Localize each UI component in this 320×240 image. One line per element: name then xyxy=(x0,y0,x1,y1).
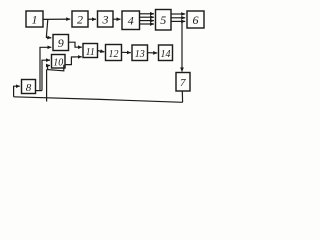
block 2 xyxy=(72,11,88,27)
svg-text:9: 9 xyxy=(58,36,64,50)
wire 12 to 13 xyxy=(122,51,131,53)
wire branch from node on 1-2 down to 9 upper input xyxy=(46,19,51,38)
svg-text:2: 2 xyxy=(77,13,83,27)
block 5 xyxy=(156,10,172,31)
wire 9 to 11 xyxy=(69,42,82,47)
wire feedback under 10 xyxy=(47,65,64,71)
block 8 xyxy=(22,80,36,94)
svg-text:10: 10 xyxy=(53,58,63,69)
bus line 4 to 5 line d xyxy=(140,23,154,25)
svg-text:3: 3 xyxy=(102,13,109,27)
block 7 xyxy=(176,73,190,92)
wire drop from bus node to 7 xyxy=(181,21,183,71)
wire 8 output foot xyxy=(36,90,42,92)
svg-text:5: 5 xyxy=(160,13,166,27)
svg-text:1: 1 xyxy=(32,13,38,27)
block 9 xyxy=(53,35,69,51)
wire 8 to 10 vertical xyxy=(42,60,50,91)
wire 10 to 11 xyxy=(65,57,82,65)
svg-text:6: 6 xyxy=(193,13,199,27)
block 1 xyxy=(26,11,43,27)
bus line 5 to 6 line a xyxy=(171,13,185,15)
bus line 4 to 5 line a xyxy=(140,13,154,15)
wire 11 to 12 xyxy=(98,51,105,52)
wire bottom feedback line xyxy=(14,97,183,103)
wire feedback rise at node xyxy=(46,70,48,102)
svg-text:8: 8 xyxy=(26,82,32,94)
block 3 xyxy=(98,11,114,27)
svg-text:14: 14 xyxy=(161,49,171,60)
block 4 xyxy=(122,11,140,30)
wire 1 to 2 xyxy=(43,18,70,20)
wire feedback branch to 10 lower input xyxy=(48,66,50,70)
wire 7 output down xyxy=(181,91,183,102)
svg-text:13: 13 xyxy=(135,49,145,60)
bus line 4 to 5 line b xyxy=(140,16,154,18)
block 11 xyxy=(83,44,98,58)
svg-text:7: 7 xyxy=(180,77,186,89)
svg-text:4: 4 xyxy=(128,14,134,28)
block 12 xyxy=(106,45,122,61)
svg-text:12: 12 xyxy=(109,49,119,60)
wire feedback up into 8 xyxy=(14,86,20,97)
wire 3 to 4 xyxy=(113,18,120,20)
block 6 xyxy=(187,11,204,28)
wire 2 to 3 xyxy=(88,18,96,20)
svg-text:11: 11 xyxy=(86,47,95,58)
block 10 xyxy=(52,55,66,69)
bus line 5 to 6 line c xyxy=(171,20,185,22)
block 13 xyxy=(132,45,148,61)
wire 8 to 9 vertical xyxy=(40,47,51,90)
bus line 5 to 6 line b xyxy=(171,17,185,19)
wire 13 to 14 xyxy=(148,52,158,54)
bus line 4 to 5 line c xyxy=(140,20,154,22)
block 14 xyxy=(159,45,173,61)
